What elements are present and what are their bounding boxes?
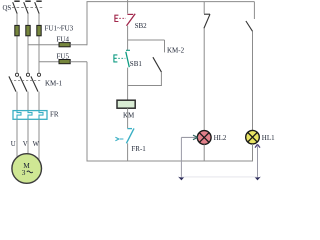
svg-text:QS: QS — [3, 5, 12, 12]
fuse FU3 — [37, 25, 41, 35]
wire HL1 to bus — [252, 144, 254, 162]
FR heater element 3 — [39, 111, 43, 120]
wire KM-2 top lead — [164, 40, 166, 52]
svg-text:HL2: HL2 — [214, 134, 227, 142]
thermal relay FR box — [13, 111, 47, 120]
switch QS pole 1 — [13, 1, 20, 13]
svg-text:FU5: FU5 — [57, 52, 70, 60]
wire below KM-1 pole 2 — [27, 92, 29, 111]
faint link line — [181, 176, 257, 178]
fuse FU2 — [26, 25, 30, 35]
wire to lamp HL1 — [252, 31, 254, 130]
motor M 3~ — [12, 154, 42, 184]
wire FU5 feed from L3 — [39, 61, 59, 63]
contact KM aux for HL2 (NO) — [204, 14, 210, 28]
switch QS pole 3 — [35, 1, 42, 13]
contact KM aux for HL1 (NO) — [246, 21, 253, 31]
svg-text:KM-2: KM-2 — [167, 47, 185, 55]
svg-text:KM-1: KM-1 — [45, 80, 63, 88]
svg-text:SB2: SB2 — [135, 22, 148, 30]
annotation arrow into HL2 — [178, 135, 198, 180]
svg-text:V: V — [23, 141, 28, 148]
lamp HL1 — [246, 130, 260, 144]
wire HL2 to bus — [203, 144, 205, 161]
wire HL1 branch corner — [253, 2, 255, 19]
wire FU4 to riser — [70, 44, 87, 46]
KM-1 linkage dashed — [10, 80, 41, 82]
contactor KM-1 pole 1 — [9, 73, 19, 91]
wire drop to bottom bus — [86, 62, 88, 161]
wire stub above SB2 — [127, 0, 129, 14]
wire branch to KM-2 — [128, 39, 165, 41]
svg-text:HL1: HL1 — [262, 134, 275, 142]
svg-text:FR-1: FR-1 — [131, 145, 146, 153]
fuse FU5 — [59, 60, 70, 64]
wire FU5 to drop — [70, 61, 87, 63]
annotation arrow into HL1 — [254, 144, 261, 180]
wire to motor W — [38, 119, 40, 161]
wire L3 phase line — [38, 14, 40, 74]
wire to motor V — [27, 119, 29, 155]
switch QS pole 2 — [24, 1, 31, 13]
wire below KM-1 pole 3 — [38, 92, 40, 111]
wire KM-2 bottom lead — [160, 72, 162, 85]
wire HL2 branch top lead — [203, 2, 205, 14]
pushbutton SB1 (NO start) — [114, 50, 130, 67]
svg-text:KM: KM — [123, 111, 135, 119]
wire KM-2 rejoin — [128, 85, 162, 87]
svg-text:FR: FR — [50, 110, 59, 118]
contactor KM-1 pole 2 — [20, 73, 30, 91]
wire L2 phase line — [27, 14, 29, 74]
contact KM-2 (NO aux) — [153, 57, 162, 72]
lamp HL2 — [197, 131, 211, 145]
contactor KM-1 pole 3 — [31, 73, 41, 91]
wire below KM-1 pole 1 — [16, 92, 18, 111]
wire SB2 to junction — [127, 26, 129, 50]
FR heater element 2 — [28, 111, 32, 120]
svg-text:FU4: FU4 — [57, 35, 70, 43]
fuse FU1 — [15, 25, 19, 35]
wire SB1 to coil — [127, 68, 129, 101]
thermal contact FR-1 (NC) — [115, 128, 134, 143]
coil KM — [117, 100, 135, 108]
svg-text:FU1~FU3: FU1~FU3 — [45, 24, 74, 32]
pushbutton SB2 (NC stop) — [115, 14, 135, 26]
wire coil to FR-1 — [127, 108, 129, 128]
wire bottom bus — [87, 160, 253, 162]
svg-text:W: W — [33, 141, 40, 148]
wire FR-1 to bus — [127, 143, 129, 161]
wire FU4 feed from L2 — [28, 44, 59, 46]
fuse FU4 — [59, 43, 70, 47]
wire riser to top rail — [86, 2, 88, 46]
wire to motor U — [16, 119, 18, 158]
wire to lamp HL2 — [203, 28, 205, 130]
QS linkage dashed — [12, 7, 44, 9]
svg-text:3: 3 — [22, 168, 26, 177]
svg-text:U: U — [11, 141, 16, 148]
wire top rail — [87, 1, 255, 3]
FR heater element 1 — [17, 111, 21, 120]
svg-text:SB1: SB1 — [130, 60, 143, 68]
wire L1 phase line — [16, 14, 18, 74]
